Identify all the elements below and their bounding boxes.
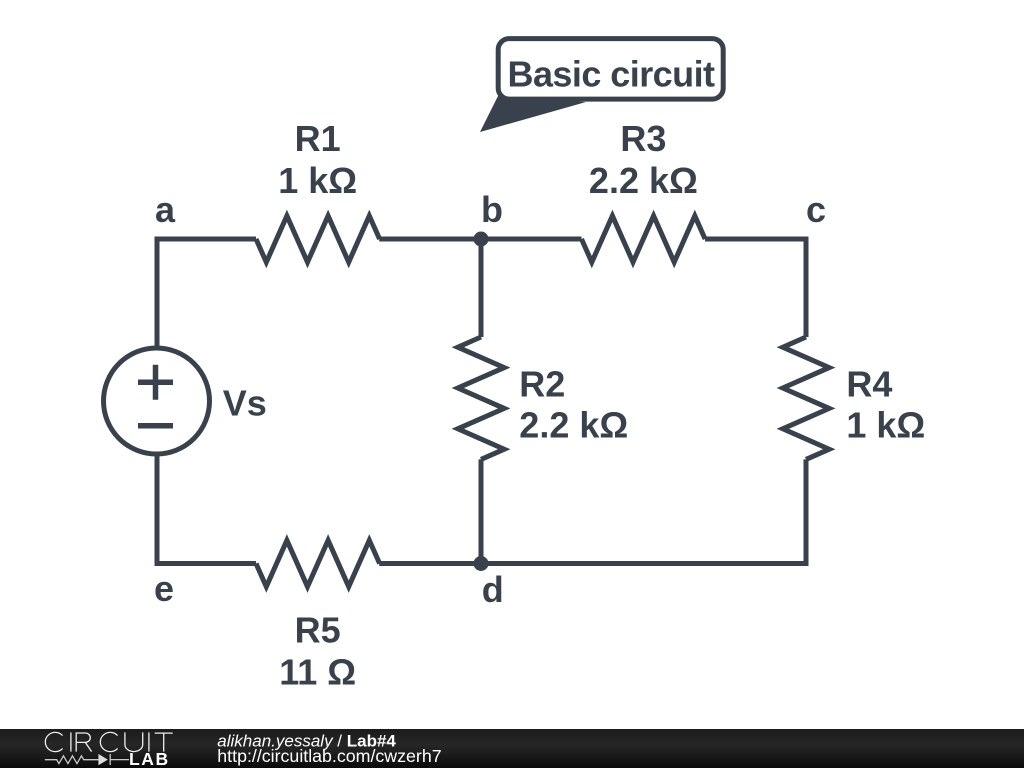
wire node d to R5	[379, 561, 481, 566]
logo letter R	[76, 733, 91, 752]
annotation bubble box	[498, 39, 723, 100]
svg-text:Basic circuit: Basic circuit	[508, 54, 716, 95]
logo letter T	[155, 733, 173, 752]
wire R4 to bottom rail	[804, 459, 809, 566]
wire node c vertical (c to R4)	[804, 237, 809, 338]
svg-text:d: d	[482, 569, 504, 610]
wire R2 to node d	[479, 459, 484, 563]
resistor R1 zigzag	[256, 216, 380, 262]
svg-text:R4: R4	[846, 363, 892, 404]
CircuitLab logo wordmark CIRCUIT (drawn strokes)	[45, 732, 172, 751]
wire R1 to node b	[379, 237, 481, 242]
svg-text:R5: R5	[295, 610, 341, 651]
svg-text:R3: R3	[620, 118, 666, 159]
svg-text:Vs: Vs	[223, 383, 267, 424]
node d junction dot	[474, 556, 489, 571]
wire node a vertical (a to Vs top)	[155, 239, 160, 348]
wire node e vertical (e to Vs bottom)	[155, 454, 160, 566]
wire node b to R3	[481, 237, 582, 242]
voltage source plus sign	[138, 365, 173, 400]
wire node b to R2	[479, 239, 484, 337]
CircuitLab logo symbol line (resistor + diode)	[45, 754, 129, 765]
wire R3 to node c	[705, 237, 809, 242]
svg-text:c: c	[806, 189, 826, 230]
logo letter C2	[100, 732, 117, 751]
svg-text:2.2 kΩ: 2.2 kΩ	[589, 160, 698, 201]
voltage source V1 circle	[104, 348, 210, 454]
svg-text:e: e	[154, 568, 174, 609]
svg-text:http://circuitlab.com/cwzerh7: http://circuitlab.com/cwzerh7	[217, 746, 441, 766]
svg-text:b: b	[481, 189, 503, 230]
logo letter I2	[148, 732, 150, 751]
logo letter U	[125, 732, 143, 751]
logo letter C1	[45, 732, 62, 751]
wire node a horizontal (a to R1)	[155, 237, 257, 242]
svg-text:LAB: LAB	[129, 749, 170, 768]
svg-text:11 Ω: 11 Ω	[279, 652, 356, 693]
svg-text:1 kΩ: 1 kΩ	[846, 404, 925, 445]
svg-text:R1: R1	[295, 118, 341, 159]
svg-text:a: a	[155, 189, 176, 230]
resistor R4 zigzag	[783, 337, 829, 459]
svg-text:2.2 kΩ: 2.2 kΩ	[519, 405, 628, 446]
resistor R2 zigzag	[458, 337, 504, 459]
annotation bubble tail	[480, 96, 586, 132]
resistor R3 zigzag	[582, 216, 706, 262]
CircuitLab logo diode triangle	[98, 754, 107, 765]
voltage source minus sign	[138, 423, 173, 429]
svg-text:R2: R2	[519, 364, 565, 405]
logo letter I1	[70, 732, 72, 751]
wire bottom rail d to R4 corner	[481, 561, 809, 566]
resistor R5 zigzag	[256, 540, 380, 586]
svg-text:1 kΩ: 1 kΩ	[278, 160, 357, 201]
wire R5 to node e	[155, 561, 257, 566]
node b junction dot	[474, 232, 489, 247]
